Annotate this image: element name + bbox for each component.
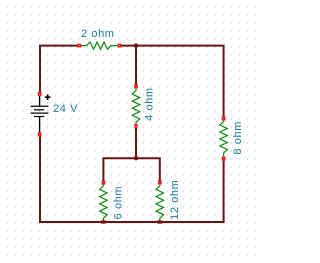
node: bottom-right junction [158, 220, 162, 224]
battery leads [39, 96, 41, 133]
wire: top-right corner down to 8ohm [121, 46, 224, 117]
battery plate long1 [31, 105, 49, 107]
pin x 12ohm bottom under dot [158, 220, 163, 223]
node: mid junction [134, 156, 138, 160]
resistor 8ohm body [220, 120, 227, 157]
node: top junction [134, 43, 138, 47]
pin x 12ohm top [158, 181, 162, 185]
battery plate short2 [34, 116, 44, 118]
wire: middle bottom [135, 128, 137, 158]
pin x battery bottom [38, 133, 42, 137]
wire: middle top [135, 47, 137, 85]
node: bottom-left junction [102, 220, 106, 224]
resistor 2ohm body [81, 42, 118, 49]
pin x 4ohm bottom [134, 124, 138, 128]
svg-text:24 V: 24 V [53, 103, 78, 115]
pin x 2ohm left [78, 44, 82, 48]
pin x 2ohm right [118, 44, 122, 48]
svg-text:12 ohm: 12 ohm [169, 180, 181, 220]
wire: top-left corner, to battery [40, 46, 78, 93]
svg-text:2 ohm: 2 ohm [81, 28, 115, 40]
pin x battery top [38, 92, 42, 96]
battery plate long2 [31, 112, 49, 114]
pin x 8ohm top [222, 117, 226, 121]
resistor 6ohm body [100, 184, 107, 221]
wire: inner horizontal + branches [103, 158, 159, 181]
svg-text:8 ohm: 8 ohm [232, 121, 244, 155]
svg-text:6 ohm: 6 ohm [112, 186, 124, 220]
grid (decorative) [7, 7, 256, 255]
resistor 4ohm body [132, 88, 139, 124]
resistor 12ohm body [156, 184, 163, 221]
pin x 6ohm bottom under dot [101, 220, 106, 223]
battery plus [45, 94, 51, 100]
wire: left-bottom U to 8ohm bottom [40, 136, 224, 222]
pin x 4ohm top [134, 85, 138, 89]
pin x 6ohm top [102, 181, 106, 185]
svg-text:4 ohm: 4 ohm [143, 87, 155, 121]
pin x 8ohm bottom [222, 157, 226, 161]
battery plate short1 [34, 109, 44, 111]
